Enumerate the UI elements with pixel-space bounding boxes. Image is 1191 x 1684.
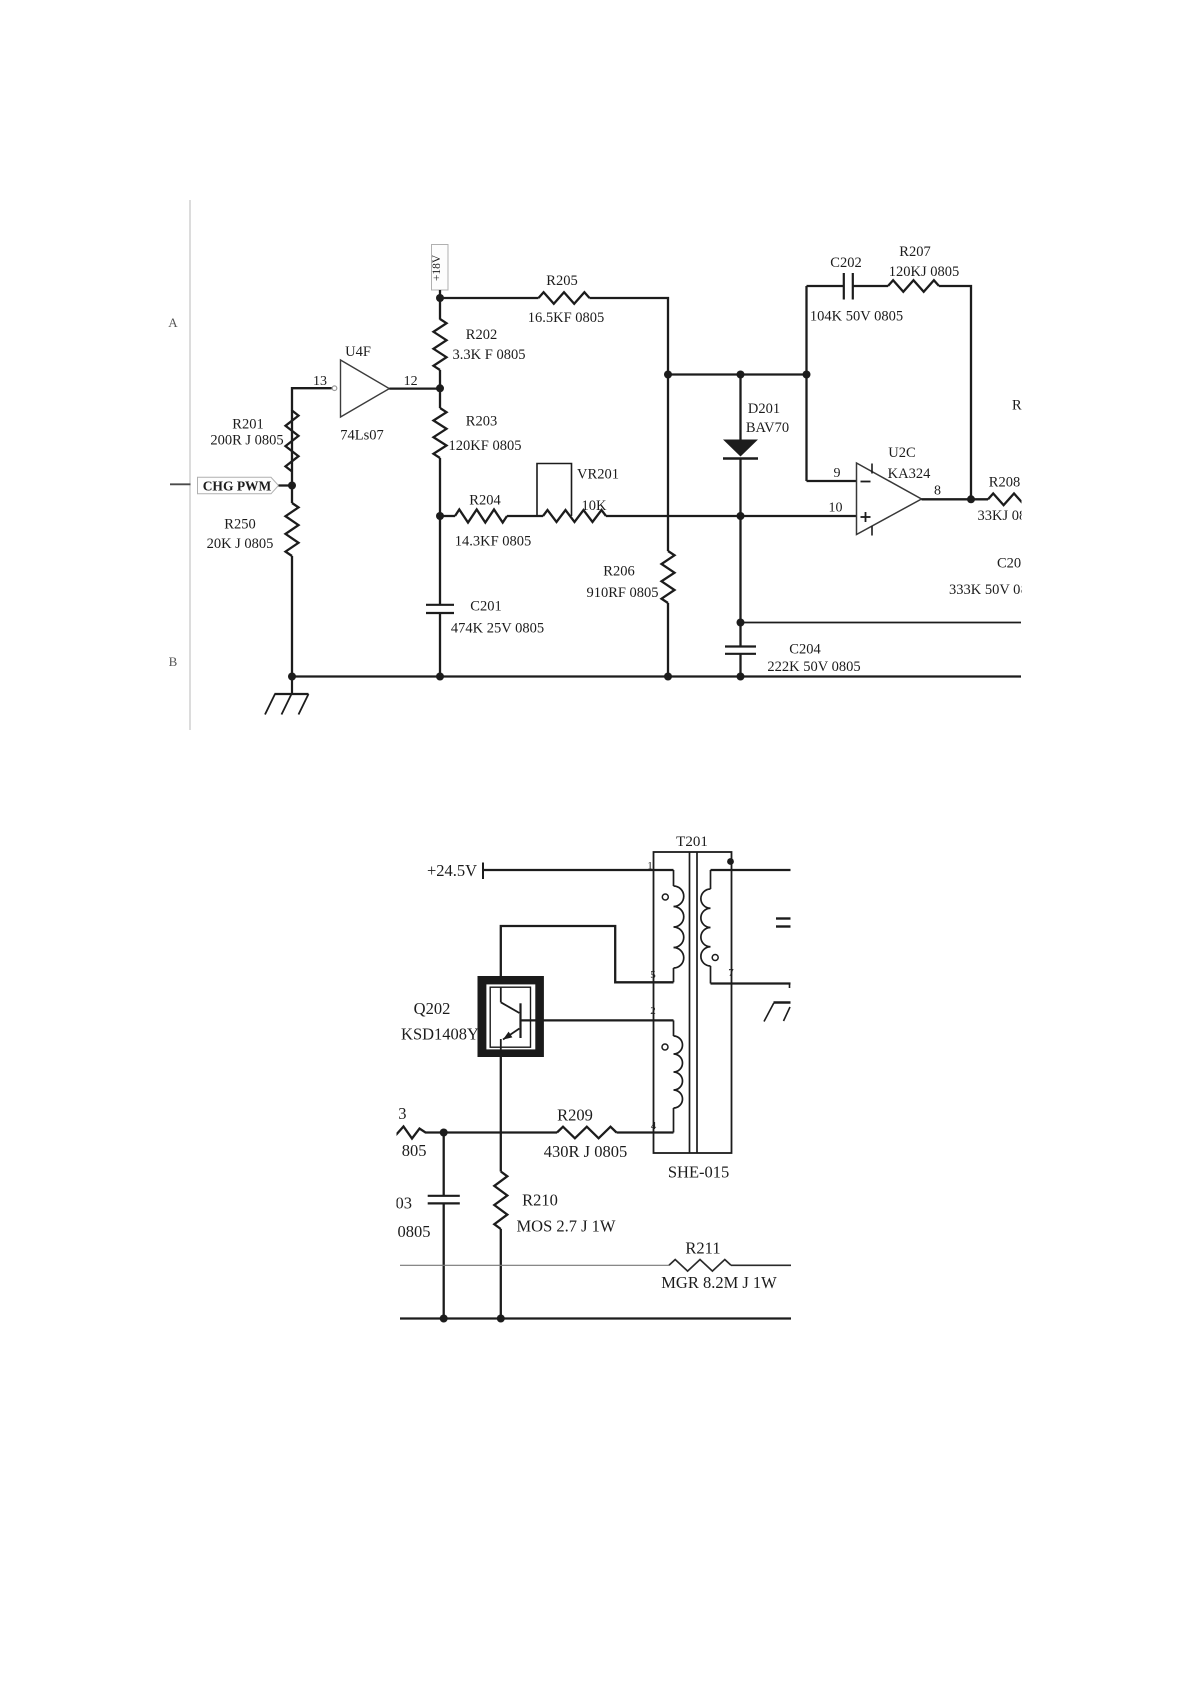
wire loop to pin 9	[807, 480, 857, 482]
wire R202 to node	[439, 370, 441, 389]
wire node rail to D201 rail	[668, 373, 807, 375]
wire Q202 base to T201	[521, 1019, 674, 1021]
net label CHG PWM	[198, 477, 279, 494]
resistor R209	[544, 1106, 627, 1162]
resistor R202	[434, 319, 526, 370]
clipped capacitor plates	[776, 917, 791, 919]
bottom rail	[292, 675, 1021, 677]
svg-text:C204: C204	[789, 642, 821, 658]
capacitor C203 clipped	[396, 1194, 460, 1242]
buffer U4F	[340, 344, 389, 444]
bottom rail of converter	[400, 1317, 791, 1319]
node junction loop left	[803, 371, 811, 379]
svg-text:10K: 10K	[582, 498, 608, 514]
svg-text:R202: R202	[466, 327, 497, 343]
svg-text:R250: R250	[224, 517, 255, 533]
wire R210 to bottom rail	[500, 1229, 502, 1319]
resistor R210	[494, 1172, 616, 1236]
wire +24.5V to T201 pin1	[483, 869, 674, 871]
svg-text:R209: R209	[557, 1106, 593, 1125]
capacitor C204	[725, 642, 861, 676]
node junction R209 left	[440, 1129, 448, 1137]
svg-text:D201: D201	[748, 401, 780, 417]
ground junction dot	[288, 673, 296, 681]
transistor Q202 heatsink outer	[481, 980, 540, 1053]
svg-text:U2C: U2C	[888, 445, 915, 461]
svg-text:7: 7	[728, 967, 734, 979]
node junction R204	[436, 512, 444, 520]
svg-text:SHE-015: SHE-015	[668, 1163, 729, 1182]
svg-text:222K 50V 0805: 222K 50V 0805	[767, 659, 860, 675]
svg-text:2: 2	[650, 1005, 656, 1017]
resistor R201	[210, 411, 298, 472]
svg-text:R205: R205	[546, 273, 577, 289]
pin 6 mark	[727, 858, 734, 865]
svg-text:B: B	[169, 654, 178, 669]
wire R203 to C201	[439, 388, 441, 408]
wire D201 to C204	[739, 459, 741, 647]
svg-text:KSD1408Y: KSD1408Y	[401, 1025, 479, 1044]
ground symbol	[265, 677, 309, 715]
svg-text:910RF 0805: 910RF 0805	[586, 585, 658, 601]
transformer core lines	[689, 852, 691, 1153]
svg-text:4: 4	[651, 1120, 657, 1132]
svg-text:8: 8	[934, 484, 941, 499]
wire loop top left	[807, 285, 845, 287]
svg-text:A: A	[168, 315, 178, 330]
winding secondary 6-7	[701, 870, 711, 984]
wire U4F output	[389, 387, 441, 389]
node junction D201 pin10	[737, 512, 745, 520]
svg-text:R211: R211	[685, 1239, 720, 1258]
frame tick at CHG PWM	[170, 483, 191, 485]
phase dot winding 2	[662, 1044, 668, 1050]
svg-text:13: 13	[313, 374, 327, 389]
wire C202 to R207	[853, 285, 888, 287]
wire node up to R201	[291, 411, 293, 488]
resistor R250	[207, 503, 299, 556]
capacitor C202	[810, 255, 903, 325]
wire CHG PWM tip to node	[279, 484, 293, 486]
svg-text:1: 1	[647, 860, 653, 872]
frame border line	[189, 200, 191, 730]
wire secondary top out	[711, 869, 791, 871]
wire R209 to T201 pin4	[617, 1131, 674, 1133]
right crop mask	[1022, 195, 1191, 715]
svg-text:C201: C201	[470, 599, 501, 615]
wire mid rail	[741, 622, 1022, 624]
power flag +18V	[431, 245, 448, 291]
buffer U4F input circle	[332, 386, 337, 391]
wire C201 to bottom rail	[439, 613, 441, 677]
svg-text:20K J 0805: 20K J 0805	[207, 536, 274, 552]
svg-text:R206: R206	[603, 564, 634, 580]
svg-text:74Ls07: 74Ls07	[340, 428, 384, 444]
svg-text:200R J 0805: 200R J 0805	[210, 433, 283, 449]
resistor R204	[440, 493, 531, 550]
svg-text:MOS 2.7 J 1W: MOS 2.7 J 1W	[516, 1217, 615, 1236]
node junction +18V rail	[436, 294, 444, 302]
svg-text:430R J 0805: 430R J 0805	[544, 1142, 627, 1161]
diode D201	[723, 401, 789, 459]
svg-text:3.3K F 0805: 3.3K F 0805	[453, 347, 526, 363]
node junction D201 top	[737, 371, 745, 379]
resistor R205	[528, 273, 605, 326]
svg-text:5: 5	[650, 969, 656, 981]
wire Q202 collector loop	[501, 926, 674, 982]
svg-text:BAV70: BAV70	[746, 420, 789, 436]
node junction right rail	[664, 371, 672, 379]
node junction bottom C204	[737, 673, 745, 681]
svg-text:R203: R203	[466, 414, 497, 430]
svg-text:+18V: +18V	[431, 254, 443, 281]
wire R201 top corner to U4F input	[292, 388, 332, 411]
svg-text:MGR 8.2M J 1W: MGR 8.2M J 1W	[661, 1273, 777, 1292]
node junction bottom C201	[436, 673, 444, 681]
clipped resistor fragment	[395, 1127, 444, 1139]
transformer T201 box	[654, 852, 732, 1153]
node junction bottom R210	[497, 1315, 505, 1323]
wire C204 to bottom rail	[739, 654, 741, 677]
clipped chassis ground	[764, 1003, 791, 1022]
phase dot secondary	[712, 955, 718, 961]
svg-text:120KJ 0805: 120KJ 0805	[889, 264, 960, 280]
node junction U4F output	[436, 384, 444, 392]
node junction at CHG PWM	[288, 482, 296, 490]
svg-text:+24.5V: +24.5V	[427, 861, 477, 880]
wire R250 to ground rail	[291, 484, 293, 503]
power label +24.5V	[427, 861, 483, 880]
transistor Q202 symbol	[501, 987, 521, 1050]
node junction bottom R206	[664, 673, 672, 681]
wire node to C203	[443, 1133, 445, 1196]
node junction output	[967, 495, 975, 503]
wire VR201 to op-amp +input	[606, 515, 857, 517]
svg-text:R204: R204	[469, 493, 501, 509]
resistor R211	[400, 1239, 791, 1293]
svg-text:KA324: KA324	[888, 466, 931, 482]
svg-text:12: 12	[404, 374, 418, 389]
wire top rail right and down	[590, 298, 669, 551]
svg-text:16.5KF 0805: 16.5KF 0805	[528, 310, 605, 326]
winding base 2-4	[674, 1020, 683, 1132]
resistor R207	[888, 244, 959, 292]
svg-text:9: 9	[834, 466, 841, 481]
svg-text:474K 25V 0805: 474K 25V 0805	[451, 621, 544, 637]
wire C203 to bottom rail	[443, 1203, 445, 1318]
wire +18V to top rail	[439, 290, 441, 320]
wire R204 to VR201	[507, 515, 543, 517]
capacitor C201	[426, 599, 544, 637]
phase dot winding 1	[662, 894, 668, 900]
winding primary 1-5	[674, 870, 684, 982]
svg-text:R207: R207	[899, 244, 930, 260]
wire secondary bottom out	[711, 982, 791, 984]
svg-text:104K 50V 0805: 104K 50V 0805	[810, 309, 903, 325]
wire R206 to bottom rail	[667, 603, 669, 677]
feedback loop left vertical	[805, 286, 807, 481]
left crop mask	[0, 1090, 397, 1350]
svg-text:U4F: U4F	[345, 344, 371, 360]
wire node to R209	[444, 1131, 557, 1133]
node junction bottom C203	[440, 1315, 448, 1323]
wire Q202 emitter	[500, 1054, 502, 1172]
svg-text:14.3KF 0805: 14.3KF 0805	[455, 534, 532, 550]
wire op-amp output	[922, 498, 989, 500]
node junction mid rail	[737, 619, 745, 627]
svg-text:3: 3	[398, 1104, 406, 1123]
svg-text:C202: C202	[830, 255, 861, 271]
svg-text:120KF 0805: 120KF 0805	[449, 438, 522, 454]
svg-text:R201: R201	[232, 417, 263, 433]
wire top rail left	[440, 297, 539, 299]
op-amp U2C	[857, 445, 932, 536]
svg-text:VR201: VR201	[577, 467, 619, 483]
svg-text:805: 805	[402, 1141, 427, 1160]
resistor R208	[978, 475, 1041, 525]
svg-text:03: 03	[396, 1194, 413, 1213]
svg-text:0805: 0805	[398, 1222, 431, 1241]
potentiometer VR201	[537, 464, 619, 523]
svg-text:10: 10	[829, 501, 843, 516]
resistor R206	[586, 551, 674, 603]
transistor Q202 inner frame	[486, 984, 536, 1051]
svg-text:Q202: Q202	[414, 999, 451, 1018]
resistor R203	[434, 408, 522, 458]
svg-text:R208: R208	[989, 475, 1020, 491]
wire D201 top	[739, 375, 741, 441]
wire loop top right and down	[939, 286, 971, 499]
svg-text:R210: R210	[522, 1191, 558, 1210]
svg-text:CHG PWM: CHG PWM	[203, 479, 272, 494]
svg-text:T201: T201	[676, 834, 708, 850]
